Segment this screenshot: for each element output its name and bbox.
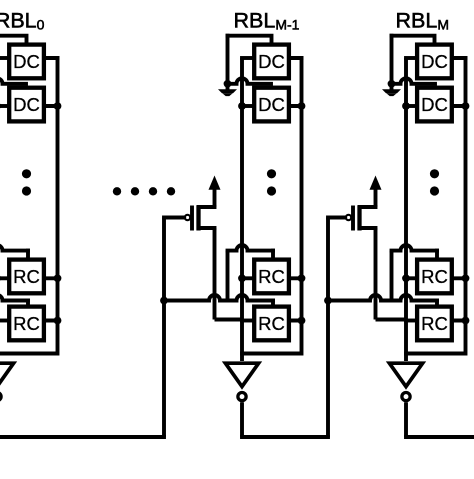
svg-text:RC: RC <box>421 313 448 334</box>
svg-text:DC: DC <box>421 51 448 72</box>
svg-text:DC: DC <box>258 94 285 115</box>
svg-text:RC: RC <box>421 266 448 287</box>
svg-text:RC: RC <box>13 313 40 334</box>
svg-text:DC: DC <box>13 94 40 115</box>
svg-text:DC: DC <box>421 94 448 115</box>
svg-text:DC: DC <box>258 51 285 72</box>
svg-text:RC: RC <box>258 313 285 334</box>
svg-text:RC: RC <box>258 266 285 287</box>
svg-text:DC: DC <box>13 51 40 72</box>
svg-text:RC: RC <box>13 266 40 287</box>
